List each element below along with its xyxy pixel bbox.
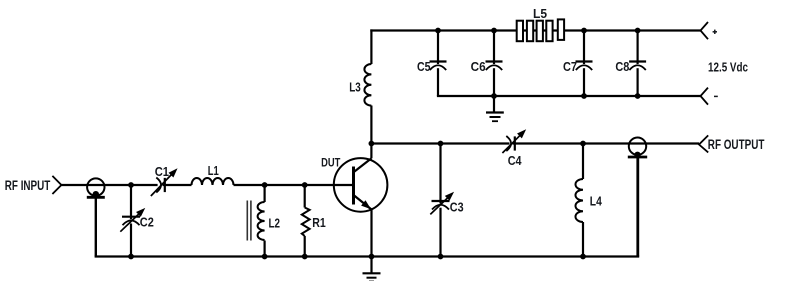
node: C8 bottom junction (635, 93, 641, 99)
node: L4 top junction (580, 141, 586, 147)
output coax connector J2 circle (629, 138, 646, 155)
wire: C4 to RF output (513, 142, 700, 144)
node: C2 top junction (128, 182, 134, 188)
wire: L2 down to bottom rail (264, 241, 266, 257)
node: C8 top junction (635, 28, 641, 34)
node: C5 top junction (435, 28, 441, 34)
svg-text:C2: C2 (140, 215, 154, 230)
wire: L1 to transistor base (234, 184, 354, 186)
wire: input connector down to bottom rail (95, 197, 97, 256)
inductor L2 (258, 202, 265, 240)
svg-text:C5: C5 (417, 59, 431, 74)
RF output terminal chevron (699, 135, 708, 152)
wire: junction down to C3 (439, 144, 441, 204)
node: C3 bottom junction (438, 254, 444, 260)
wire: emitter down to bottom rail (370, 210, 372, 257)
wire: top rail down to C6 (493, 31, 495, 65)
resistor R1 (302, 208, 310, 237)
node: R1 bottom junction (302, 254, 308, 260)
wire: output connector down to bottom rail (636, 157, 639, 257)
node: L2 top junction (262, 182, 268, 188)
svg-text:DUT: DUT (321, 155, 341, 169)
node: C3 top junction (438, 141, 444, 147)
output connector junction dot (634, 152, 640, 158)
wire: C3 down to bottom rail (439, 208, 441, 257)
RF input terminal chevron (52, 176, 61, 194)
node: L4 bottom junction (580, 254, 586, 260)
wire: L4 down to bottom rail (582, 222, 584, 257)
- supply terminal chevron (701, 88, 709, 105)
transistor DUT (NPN) (334, 158, 388, 212)
node: L2 bottom junction (262, 254, 268, 260)
wire: C1 to L1 (163, 184, 192, 186)
svg-text:C1: C1 (155, 164, 169, 179)
svg-text:L1: L1 (208, 163, 219, 178)
ground (emitter) (363, 257, 381, 281)
ground (under C6) (486, 96, 504, 121)
svg-text:L5: L5 (533, 6, 547, 21)
input connector ground plate (87, 196, 105, 199)
svg-text:L4: L4 (590, 194, 603, 209)
capacitor C8 (629, 62, 646, 71)
node: R1 top junction (302, 182, 308, 188)
inductor L3 (364, 64, 371, 106)
wire: C5 down to filter rail (437, 68, 439, 96)
wire: junction down to L2 (264, 185, 266, 202)
capacitor C1 (variable, series) (148, 166, 180, 198)
wire: top rail down to C7 (583, 31, 585, 65)
label + (713, 30, 717, 34)
wire: top supply rail (370, 29, 700, 31)
wire: C8 down to filter rail (636, 68, 638, 96)
capacitor C7 (576, 62, 593, 71)
capacitor C4 (variable, series) (500, 127, 529, 156)
inductor L1 (192, 178, 234, 185)
capacitor C3 (variable) (428, 189, 456, 217)
capacitor C5 (430, 62, 447, 71)
wire: input to C1 (61, 184, 157, 186)
node: C6 top junction (491, 28, 497, 34)
svg-text:C3: C3 (450, 200, 464, 215)
wire: filter bottom rail (438, 95, 701, 96)
L2 tunable core bars (247, 201, 251, 241)
svg-text:C4: C4 (508, 153, 522, 168)
wire: top rail down to C5 (437, 31, 439, 65)
svg-text:RF OUTPUT: RF OUTPUT (708, 137, 765, 152)
capacitor C6 (486, 62, 503, 71)
node: collector / middle-wire junction (369, 141, 375, 147)
svg-text:C6: C6 (471, 59, 486, 74)
wire: junction down to C2 (130, 185, 132, 219)
wire: C6 down to filter rail (493, 68, 495, 96)
svg-text:L3: L3 (349, 79, 361, 94)
svg-text:12.5 Vdc: 12.5 Vdc (708, 60, 748, 75)
wire: C2 down to bottom rail (130, 224, 132, 257)
inductor L4 (575, 179, 583, 222)
svg-text:C7: C7 (563, 59, 577, 74)
wire: L3 up to top rail (370, 29, 372, 64)
wire: C7 down to filter rail (583, 68, 585, 96)
node: C2 bottom junction (128, 254, 134, 260)
node: emitter bottom junction (369, 254, 375, 260)
wire: R1 down to bottom rail (304, 236, 306, 257)
wire: junction down to L4 (582, 144, 584, 180)
inductor L5 (ferrite bead) (517, 19, 564, 41)
wire: junction down to R1 (304, 185, 306, 208)
capacitor C2 (variable) (118, 205, 148, 234)
wire: top rail down to C8 (636, 31, 638, 65)
node: C7 top junction (581, 28, 587, 34)
+ supply terminal chevron (701, 22, 709, 39)
node: C6 bottom junction (491, 93, 497, 99)
svg-text:RF INPUT: RF INPUT (5, 178, 51, 193)
output connector ground plate (628, 156, 647, 159)
wire: middle wire collector junction to C4 (371, 142, 509, 144)
svg-text:C8: C8 (615, 59, 629, 74)
label - (714, 95, 718, 97)
input connector junction dot (93, 191, 99, 197)
wire: collector up from transistor to L3 (370, 106, 372, 159)
svg-text:R1: R1 (312, 215, 326, 230)
input coax connector J1 circle (87, 178, 104, 195)
node: C7 bottom junction (581, 93, 587, 99)
svg-text:L2: L2 (269, 216, 281, 231)
wire: bottom ground rail (95, 255, 640, 257)
